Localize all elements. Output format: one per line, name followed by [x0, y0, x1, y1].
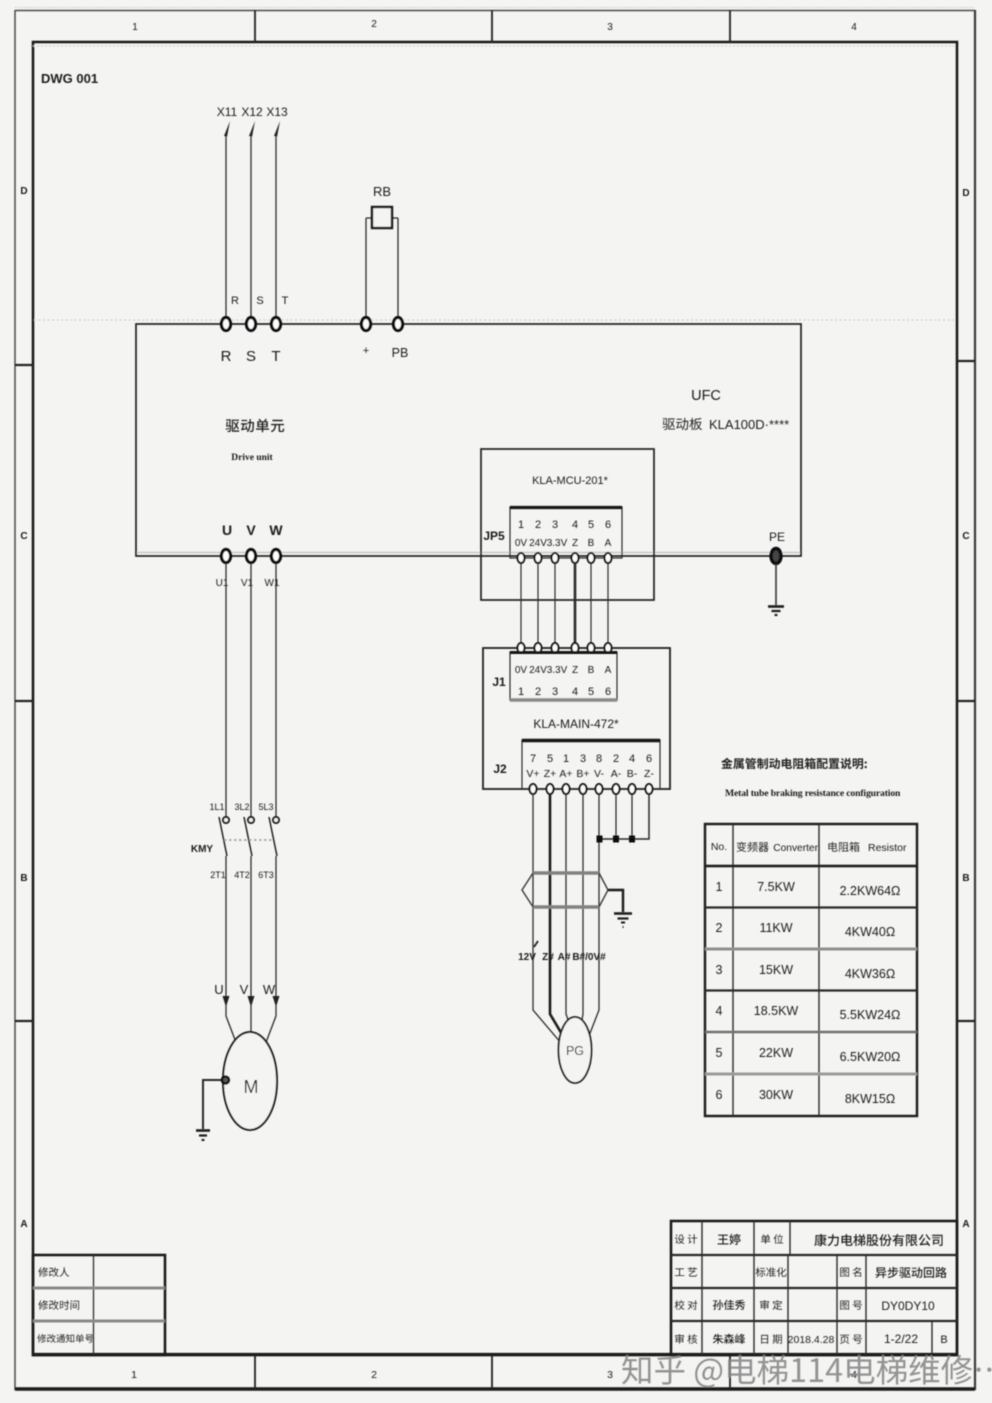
- svg-text:12V: 12V: [518, 952, 536, 963]
- title block col c row1: [789, 1221, 791, 1255]
- ground shield symbol: [614, 914, 632, 928]
- drive unit box: [136, 324, 801, 556]
- title block row line 1: [671, 1254, 957, 1256]
- svg-text:C: C: [962, 531, 969, 542]
- connector JP5 top edge: [510, 506, 622, 509]
- table title block box: [671, 1221, 957, 1355]
- wire X13: [275, 137, 277, 323]
- svg-text:DY0DY10: DY0DY10: [881, 1299, 935, 1313]
- svg-text:4: 4: [572, 686, 578, 698]
- svg-text:2: 2: [371, 19, 377, 30]
- label 异步驱动回路: [876, 1267, 947, 1278]
- table resistor row sep 1: [705, 906, 917, 908]
- board KLA-MAIN-472 box: [483, 648, 670, 789]
- svg-text:5: 5: [588, 686, 594, 698]
- left zone tick D-C: [15, 364, 33, 366]
- arrow X11: [224, 121, 230, 137]
- label 审定: [760, 1300, 782, 1310]
- label 设计: [675, 1234, 697, 1244]
- wire U to contactor: [225, 563, 227, 817]
- label 孙佳秀: [713, 1300, 745, 1310]
- wire V contactor to motor: [250, 856, 252, 1004]
- svg-text:UFC: UFC: [691, 388, 721, 404]
- wire motor to ground: [203, 1080, 221, 1129]
- svg-text:8: 8: [596, 753, 602, 765]
- junction V- 0V: [597, 836, 603, 843]
- svg-text:1: 1: [132, 22, 138, 33]
- svg-text:1L1: 1L1: [209, 802, 224, 812]
- svg-text:Z+: Z+: [544, 768, 557, 780]
- svg-text:Drive unit: Drive unit: [231, 453, 273, 463]
- svg-text:T: T: [282, 295, 289, 307]
- svg-text:4T2: 4T2: [234, 870, 250, 880]
- wire PE ground lead: [775, 563, 777, 605]
- contactor KMY pole2 terminal: [248, 817, 254, 823]
- wire U contactor to motor: [225, 856, 227, 1004]
- J1 terminal 3: [552, 643, 559, 653]
- J1 terminal 5: [588, 643, 595, 653]
- J1 terminal 4: [572, 643, 579, 653]
- svg-text:6T3: 6T3: [258, 870, 274, 880]
- svg-text:+: +: [363, 345, 369, 357]
- svg-text:5.5KW24Ω: 5.5KW24Ω: [840, 1008, 901, 1022]
- svg-text:2T1: 2T1: [210, 870, 226, 880]
- svg-text:W1: W1: [265, 578, 280, 589]
- J2 terminal 5: [547, 784, 554, 794]
- connector J2 strip: [522, 740, 660, 789]
- svg-text:5: 5: [547, 753, 553, 765]
- wire X12: [250, 137, 252, 323]
- note 金属管制动电阻箱配置说明: [721, 758, 867, 769]
- table resistor col line 2: [818, 824, 820, 1116]
- svg-text:4: 4: [716, 1004, 723, 1018]
- svg-text:4KW36Ω: 4KW36Ω: [845, 967, 895, 981]
- svg-text:0V: 0V: [515, 665, 528, 676]
- table resistor header sep: [705, 865, 917, 868]
- svg-text:V1: V1: [241, 578, 254, 589]
- svg-text:PB: PB: [392, 346, 409, 360]
- table resistor row sep 5: [705, 1073, 917, 1076]
- svg-text:D: D: [20, 186, 27, 197]
- terminal T: [271, 317, 280, 330]
- table revision row sep 1: [33, 1287, 165, 1290]
- svg-text:Metal tube braking resistance: Metal tube braking resistance configurat…: [725, 788, 901, 799]
- terminal +: [361, 317, 370, 330]
- title block col e rows: [865, 1255, 867, 1355]
- table resistor col line 1: [732, 824, 734, 1116]
- svg-text:3.3V: 3.3V: [547, 538, 568, 549]
- svg-text:3: 3: [580, 753, 586, 765]
- label 审核: [675, 1334, 697, 1344]
- svg-text:A: A: [605, 538, 612, 549]
- top zone tick 3-4: [729, 10, 731, 42]
- wire V- down: [587, 794, 599, 1041]
- board KLA-MCU-201 box: [481, 449, 654, 600]
- terminal U: [221, 549, 230, 562]
- wire shield to ground: [608, 890, 623, 912]
- arrow U head: [223, 996, 230, 1007]
- svg-text:A#: A#: [558, 952, 571, 963]
- JP5 terminal 1: [518, 553, 525, 563]
- svg-text:Z: Z: [572, 665, 578, 676]
- svg-text:B: B: [588, 665, 595, 676]
- svg-text:6: 6: [716, 1088, 723, 1102]
- wire JP5-2 to J1-2: [537, 563, 539, 644]
- terminal PE: [771, 549, 781, 564]
- connector J1 bottom edge: [510, 698, 617, 702]
- svg-text:KLA100D·****: KLA100D·****: [709, 417, 789, 432]
- bottom zone tick 1-2: [254, 1355, 256, 1390]
- cable shield right chevron: [599, 873, 608, 907]
- svg-text:8KW15Ω: 8KW15Ω: [845, 1092, 895, 1106]
- svg-text:0V: 0V: [515, 538, 528, 549]
- svg-text:RB: RB: [373, 184, 391, 199]
- svg-text:A-: A-: [611, 768, 622, 780]
- label 修改通知单号: [37, 1334, 93, 1343]
- wire W into motor: [265, 1005, 276, 1045]
- wire W contactor to motor: [275, 856, 277, 1004]
- wire W to contactor: [275, 563, 277, 817]
- svg-text:24V: 24V: [529, 665, 547, 676]
- svg-text:1: 1: [518, 686, 524, 698]
- encoder PG circle: [559, 1017, 592, 1083]
- contactor KMY pole1 terminal: [223, 817, 229, 823]
- svg-text:DWG 001: DWG 001: [41, 71, 98, 86]
- svg-text:J1: J1: [492, 675, 506, 689]
- wire A+ down: [566, 794, 572, 1031]
- svg-text:Resistor: Resistor: [868, 842, 907, 854]
- svg-text:5: 5: [588, 519, 594, 531]
- border outer frame right: [974, 10, 976, 1390]
- J2 terminal 3: [580, 784, 587, 794]
- svg-text:1: 1: [518, 519, 524, 531]
- table header 电阻箱: [828, 842, 859, 852]
- svg-text:6.5KW20Ω: 6.5KW20Ω: [840, 1050, 901, 1064]
- svg-text:B+: B+: [576, 768, 589, 780]
- title block col b: [753, 1221, 755, 1355]
- svg-text:S: S: [246, 348, 256, 365]
- svg-text:V-: V-: [594, 768, 604, 780]
- label 日期: [761, 1334, 782, 1344]
- svg-text:6: 6: [605, 519, 611, 531]
- resistor RB body: [372, 207, 392, 228]
- bottom zone tick 3-4: [729, 1355, 731, 1390]
- svg-text:4: 4: [629, 753, 635, 765]
- junction B- 0V: [629, 836, 635, 843]
- svg-text:3: 3: [552, 686, 558, 698]
- label 12V tick: [534, 941, 538, 947]
- terminal V: [246, 549, 255, 562]
- title block row line 3: [671, 1320, 957, 1322]
- svg-text:W: W: [263, 982, 276, 997]
- connector J2 top edge: [522, 739, 660, 742]
- J2 terminal 1: [563, 784, 570, 794]
- ground motor symbol: [196, 1131, 210, 1141]
- svg-text:U: U: [222, 522, 232, 538]
- contactor KMY pole2 blade: [244, 817, 252, 856]
- svg-text:15KW: 15KW: [759, 963, 793, 977]
- J2 terminal 2: [613, 784, 620, 794]
- table resistor row sep 3: [705, 989, 917, 991]
- svg-text:2: 2: [535, 686, 541, 698]
- table resistor box: [705, 824, 917, 1116]
- border inner frame bottom emphasis: [33, 1353, 957, 1356]
- svg-text:A: A: [962, 1219, 969, 1230]
- contactor KMY pole3 blade: [269, 817, 277, 856]
- svg-text:2: 2: [613, 753, 619, 765]
- svg-text:3.3V: 3.3V: [547, 665, 568, 676]
- svg-text:3: 3: [607, 1369, 613, 1381]
- label 页号: [840, 1335, 862, 1344]
- svg-text:V: V: [240, 982, 249, 997]
- svg-text:No.: No.: [711, 841, 727, 853]
- svg-text:R: R: [231, 295, 239, 307]
- title block col f row4: [931, 1321, 933, 1355]
- label 单位: [761, 1234, 783, 1244]
- motor M circle: [223, 1032, 277, 1130]
- label 朱森峰: [713, 1334, 745, 1344]
- top zone tick 2-3: [491, 10, 493, 42]
- svg-text:7.5KW: 7.5KW: [757, 880, 795, 894]
- J2 terminal 6: [646, 784, 653, 794]
- table revision col line: [93, 1255, 95, 1355]
- title block row line 2: [671, 1287, 957, 1289]
- wire JP5-4 to J1-4: [574, 563, 577, 644]
- terminal R: [221, 317, 230, 330]
- border inner frame top echo: [33, 45, 957, 47]
- svg-text:JP5: JP5: [483, 529, 505, 543]
- label 校对: [675, 1300, 698, 1310]
- label 驱动板: [662, 418, 702, 430]
- svg-text:X11: X11: [217, 105, 238, 119]
- svg-text:M: M: [244, 1077, 259, 1097]
- wire RB left lead: [366, 218, 372, 323]
- border outer frame bottom: [15, 1387, 975, 1391]
- border outer frame left: [14, 10, 16, 1390]
- table resistor row sep 4: [705, 1031, 917, 1034]
- wire JP5-1 to J1-1: [520, 563, 522, 644]
- JP5 terminal 2: [535, 553, 542, 563]
- wire Z- drop: [599, 794, 649, 839]
- wire V+ down: [533, 794, 561, 1043]
- JP5 terminal 4: [572, 553, 579, 563]
- svg-text:KMY: KMY: [191, 844, 214, 855]
- bottom zone tick 2-3: [491, 1355, 493, 1390]
- wire Z+ down (bold): [550, 794, 566, 1041]
- svg-text:6: 6: [605, 686, 611, 698]
- wire X11: [225, 137, 227, 323]
- terminal S: [246, 317, 255, 330]
- label 标准化: [756, 1267, 787, 1277]
- svg-text:C: C: [20, 531, 27, 542]
- title block col a: [701, 1221, 703, 1355]
- title block col c rows: [787, 1255, 789, 1355]
- svg-text:24V: 24V: [529, 538, 547, 549]
- junction A- 0V: [613, 836, 619, 843]
- svg-text:B: B: [20, 873, 27, 884]
- label 驱动单元: [226, 419, 285, 432]
- svg-text:Converter: Converter: [773, 843, 818, 854]
- label 修改人: [38, 1267, 69, 1277]
- svg-text:S: S: [256, 295, 263, 307]
- svg-text:R: R: [221, 348, 232, 365]
- label 图名: [840, 1267, 861, 1277]
- wire JP5-3 to J1-3: [554, 563, 556, 644]
- svg-text:Z-: Z-: [644, 768, 654, 780]
- svg-text:A+: A+: [559, 768, 572, 780]
- contactor KMY linkage dashed: [224, 839, 273, 841]
- svg-text:B#/0V#: B#/0V#: [572, 952, 606, 963]
- ground PE symbol: [768, 607, 784, 616]
- title block col d rows: [836, 1255, 838, 1355]
- svg-text:30KW: 30KW: [759, 1088, 793, 1102]
- svg-text:3: 3: [607, 22, 613, 33]
- left zone tick C-B: [15, 700, 33, 702]
- right zone tick D-C: [957, 360, 975, 362]
- label 王婷: [718, 1234, 741, 1245]
- wire V into motor: [250, 1005, 252, 1033]
- J1 terminal 6: [605, 643, 612, 653]
- table revision box: [33, 1255, 165, 1355]
- svg-text:Z#: Z#: [542, 952, 554, 963]
- table header 变频器: [737, 842, 769, 852]
- svg-text:B-: B-: [627, 768, 638, 780]
- table revision row sep 2: [33, 1320, 165, 1323]
- top zone tick 1-2: [254, 10, 256, 42]
- arrow V head: [248, 996, 255, 1007]
- connector J1 strip: [510, 652, 617, 700]
- svg-text:V: V: [246, 522, 256, 538]
- svg-text:11KW: 11KW: [759, 921, 792, 935]
- border outer frame top: [15, 10, 975, 12]
- svg-text:A: A: [605, 665, 612, 676]
- arrow X13: [274, 121, 280, 137]
- wire JP5-5 to J1-5: [590, 563, 592, 644]
- cable shield top: [533, 871, 599, 875]
- svg-text:1-2/22: 1-2/22: [884, 1332, 918, 1346]
- svg-text:V+: V+: [526, 768, 539, 780]
- wire B- drop: [631, 794, 633, 839]
- svg-text:2: 2: [716, 921, 723, 935]
- motor ground terminal: [222, 1076, 229, 1083]
- svg-text:W: W: [269, 522, 283, 538]
- svg-text:2018.4.28: 2018.4.28: [788, 1334, 835, 1346]
- svg-text:5L3: 5L3: [258, 802, 273, 812]
- table resistor row sep 2: [705, 948, 917, 951]
- svg-text:B: B: [940, 1334, 947, 1346]
- svg-text:U: U: [214, 982, 223, 997]
- svg-text:KLA-MCU-201*: KLA-MCU-201*: [532, 475, 609, 487]
- JP5 terminal 3: [552, 553, 559, 563]
- svg-text:KLA-MAIN-472*: KLA-MAIN-472*: [533, 717, 619, 731]
- cable shield left chevron: [522, 873, 533, 907]
- left zone tick B-A: [15, 1020, 33, 1022]
- scan artifact line above drive box: [34, 319, 956, 321]
- svg-text:4: 4: [851, 22, 857, 33]
- label 康力电梯股份有限公司: [814, 1234, 942, 1246]
- svg-text:6: 6: [646, 753, 652, 765]
- wire B+ down: [580, 794, 583, 1031]
- wire V to contactor: [250, 563, 252, 817]
- terminal W: [271, 549, 280, 562]
- J2 terminal 8: [596, 784, 603, 794]
- arrow W head: [273, 996, 280, 1007]
- connector J1 top edge: [510, 651, 617, 654]
- JP5 terminal 6: [605, 553, 612, 563]
- arrow X12: [249, 121, 255, 137]
- svg-text:4KW40Ω: 4KW40Ω: [845, 925, 895, 939]
- label 工艺: [675, 1267, 697, 1276]
- svg-text:2.2KW64Ω: 2.2KW64Ω: [840, 884, 901, 898]
- svg-text:2: 2: [371, 1369, 377, 1381]
- J2 terminal 7: [530, 784, 537, 794]
- label 修改时间: [38, 1300, 79, 1310]
- J2 terminal 4: [629, 784, 636, 794]
- svg-text:J2: J2: [493, 762, 507, 776]
- label 图号: [840, 1301, 862, 1310]
- right zone tick C-B: [957, 700, 975, 702]
- wire RB right lead: [392, 218, 398, 323]
- wire A- drop: [615, 794, 617, 839]
- border outer frame top echo: [15, 7, 975, 9]
- watermark 知乎: [622, 1355, 992, 1388]
- svg-text:D: D: [962, 188, 969, 199]
- svg-text:4: 4: [572, 519, 578, 531]
- terminal PB: [393, 317, 402, 330]
- J1 terminal 1: [518, 643, 525, 653]
- svg-text:B: B: [588, 538, 595, 549]
- J1 terminal 2: [535, 643, 542, 653]
- svg-text:1: 1: [716, 880, 723, 894]
- wire JP5-6 to J1-6: [607, 563, 609, 644]
- svg-text:PG: PG: [566, 1044, 584, 1058]
- connector JP5 strip: [510, 507, 622, 558]
- svg-text:1: 1: [563, 753, 569, 765]
- JP5 terminal 5: [588, 553, 595, 563]
- svg-text:1: 1: [131, 1369, 137, 1381]
- svg-text:7: 7: [530, 753, 536, 765]
- svg-text:22KW: 22KW: [759, 1046, 793, 1060]
- svg-text:3: 3: [552, 519, 558, 531]
- svg-text:A: A: [20, 1219, 27, 1230]
- svg-text:B: B: [962, 873, 969, 884]
- svg-text:X12: X12: [241, 105, 263, 119]
- svg-text:X13: X13: [266, 105, 288, 119]
- contactor KMY pole3 terminal: [273, 817, 279, 823]
- contactor KMY pole1 blade: [219, 817, 227, 856]
- svg-text:T: T: [271, 348, 280, 365]
- scan artifact echo drive box bottom: [137, 552, 800, 554]
- svg-text:3: 3: [716, 963, 723, 977]
- svg-text:Z: Z: [572, 538, 578, 549]
- svg-text:2: 2: [535, 519, 541, 531]
- svg-text:18.5KW: 18.5KW: [754, 1004, 799, 1018]
- wire U into motor: [226, 1005, 237, 1045]
- svg-text:PE: PE: [769, 530, 785, 544]
- svg-text:3L2: 3L2: [234, 802, 249, 812]
- cable shield bottom: [533, 905, 599, 909]
- svg-text:5: 5: [716, 1046, 723, 1060]
- right zone tick B-A: [957, 1020, 975, 1022]
- svg-text:U1: U1: [216, 578, 229, 589]
